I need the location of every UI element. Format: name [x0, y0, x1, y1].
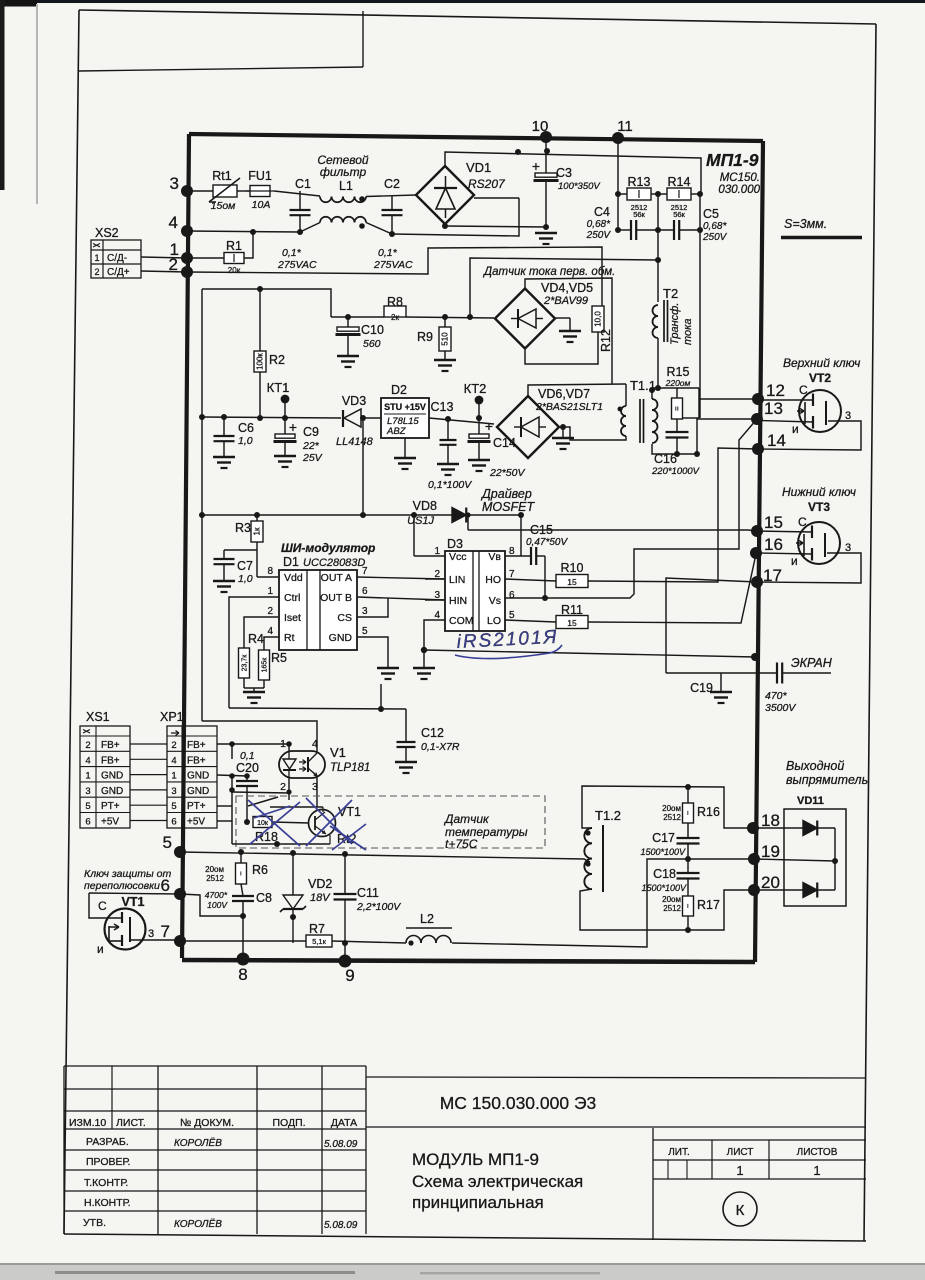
svg-text:2*BAS21SLT1: 2*BAS21SLT1 — [535, 401, 603, 413]
wires XS1-XP1 — [130, 743, 167, 745]
capacitor C6 — [223, 417, 225, 436]
svg-text:−: − — [684, 810, 693, 815]
wire HIN — [425, 599, 445, 601]
svg-text:2512: 2512 — [663, 813, 681, 822]
svg-text:и: и — [791, 554, 798, 568]
svg-text:+5V: +5V — [101, 817, 119, 828]
node 16 — [750, 547, 762, 559]
ground under R4 R5 — [243, 691, 265, 694]
svg-text:R17: R17 — [697, 898, 720, 912]
svg-text:10,0: 10,0 — [594, 311, 603, 327]
node 6 — [174, 888, 186, 900]
svg-text:2512: 2512 — [206, 874, 224, 883]
resistor R2 — [259, 289, 261, 351]
svg-text:4: 4 — [312, 738, 318, 750]
node 7 — [174, 935, 186, 947]
svg-text:КОРОЛЁВ: КОРОЛЁВ — [174, 1137, 222, 1149]
PWM controller D1 — [279, 570, 357, 650]
node 5 — [174, 846, 186, 858]
title block — [64, 1065, 366, 1067]
svg-text:4: 4 — [169, 213, 178, 232]
svg-text:ДАТА: ДАТА — [331, 1117, 357, 1129]
svg-text:0,47*50V: 0,47*50V — [526, 537, 568, 548]
node 15 — [751, 525, 763, 537]
svg-text:1: 1 — [85, 771, 90, 782]
node 14 — [752, 443, 764, 455]
bridge VD4 bottom wire — [525, 332, 598, 364]
svg-text:C9: C9 — [303, 425, 319, 439]
wire bridge- — [445, 226, 546, 227]
svg-text:2: 2 — [94, 267, 99, 277]
wire opto row upper — [229, 708, 406, 709]
svg-text:Vdd: Vdd — [284, 572, 303, 584]
thermal sensor dashed box — [236, 796, 545, 848]
svg-text:Схема электрическая: Схема электрическая — [412, 1172, 583, 1191]
wire R10 to node14 — [588, 448, 758, 582]
left rail vertical — [201, 289, 203, 721]
svg-text:25V: 25V — [302, 452, 323, 464]
wire OUT A — [357, 577, 445, 579]
svg-text:5: 5 — [509, 610, 515, 621]
svg-text:MOSFET: MOSFET — [482, 500, 535, 514]
svg-text:C18: C18 — [653, 867, 676, 881]
page frame left line — [64, 10, 79, 1234]
node 9 — [339, 955, 352, 968]
svg-text:20ом: 20ом — [205, 865, 224, 874]
svg-text:Выходной: Выходной — [786, 759, 844, 773]
wire opto pin2 — [288, 778, 290, 800]
svg-text:6: 6 — [85, 817, 90, 828]
svg-text:13: 13 — [764, 399, 783, 418]
ground under C13 — [437, 463, 459, 466]
wire node3 to Rt1 — [187, 190, 213, 192]
svg-text:5: 5 — [171, 801, 176, 812]
svg-text:C2: C2 — [384, 177, 400, 191]
svg-text:FB+: FB+ — [187, 755, 206, 766]
svg-text:R13: R13 — [628, 175, 651, 189]
svg-text:1: 1 — [171, 771, 176, 782]
svg-text:2,2*100V: 2,2*100V — [356, 901, 401, 913]
node 12 — [752, 393, 764, 405]
regulator D2 — [381, 398, 429, 438]
wire CS — [357, 598, 388, 617]
svg-text:8: 8 — [267, 566, 273, 577]
svg-text:2к: 2к — [391, 313, 399, 322]
node 19 — [748, 853, 760, 865]
wire Vdd — [257, 576, 279, 578]
svg-text:LL4148: LL4148 — [336, 436, 374, 448]
svg-text:№ ДОКУМ.: № ДОКУМ. — [180, 1117, 234, 1129]
wire VD11 join — [834, 828, 836, 890]
svg-text:2512: 2512 — [663, 904, 681, 913]
svg-text:100*350V: 100*350V — [558, 181, 601, 192]
ground at VD6 — [562, 427, 564, 437]
svg-text:C10: C10 — [361, 323, 384, 337]
resistor R5 — [259, 650, 270, 680]
svg-text:GND: GND — [187, 786, 209, 797]
svg-text:R15: R15 — [667, 365, 690, 379]
svg-text:R7: R7 — [309, 922, 325, 936]
wire T1.2 top — [582, 786, 753, 828]
svg-text:Rt: Rt — [284, 632, 295, 644]
svg-text:1: 1 — [267, 586, 273, 597]
wire GND D1 — [357, 637, 388, 667]
wire to Vb — [520, 515, 522, 556]
svg-text:5: 5 — [85, 801, 90, 812]
svg-text:D3: D3 — [447, 537, 463, 551]
svg-text:МОДУЛЬ МП1-9: МОДУЛЬ МП1-9 — [412, 1150, 539, 1169]
svg-text:R1: R1 — [226, 239, 242, 253]
resistor R14 — [667, 188, 691, 200]
svg-text:ПРОВЕР.: ПРОВЕР. — [86, 1156, 130, 1168]
svg-text:C20: C20 — [236, 761, 259, 775]
wire XS2 pin2 — [141, 271, 187, 272]
node 2 — [181, 266, 193, 278]
svg-text:VT1: VT1 — [122, 895, 145, 909]
resistor R7 — [306, 935, 332, 947]
transistor VT1 crossed — [309, 810, 336, 837]
svg-text:2: 2 — [267, 606, 273, 617]
svg-text:ЛИСТ.: ЛИСТ. — [116, 1117, 146, 1129]
svg-text:Датчик: Датчик — [443, 812, 490, 826]
svg-text:3: 3 — [148, 928, 154, 940]
svg-text:0,1*100V: 0,1*100V — [428, 479, 472, 491]
svg-text:R11: R11 — [561, 603, 583, 617]
wire node6 — [89, 893, 180, 894]
wire GND join — [217, 775, 247, 776]
node 17 wire — [666, 578, 757, 673]
svg-text:22*: 22* — [302, 440, 320, 452]
svg-text:переполюсовки: переполюсовки — [84, 880, 160, 892]
title block bottom — [64, 1234, 866, 1241]
svg-text:TLP181: TLP181 — [330, 762, 370, 774]
wire +5V into box — [217, 820, 232, 822]
svg-text:6: 6 — [362, 586, 368, 597]
svg-text:R12: R12 — [599, 329, 613, 352]
svg-text:8: 8 — [238, 965, 247, 984]
svg-text:10А: 10А — [252, 199, 271, 211]
svg-text:5: 5 — [362, 626, 368, 637]
node 4 — [181, 225, 193, 237]
wire to R13 — [618, 193, 627, 195]
svg-text:56к: 56к — [633, 210, 645, 219]
wire T2 bottom — [657, 338, 659, 388]
svg-text:VT2: VT2 — [809, 371, 831, 385]
svg-text:1: 1 — [434, 546, 440, 557]
svg-text:GND: GND — [187, 771, 209, 782]
ground under C9 — [274, 455, 296, 458]
capacitor C3 — [545, 139, 547, 176]
node 17 — [751, 576, 763, 588]
svg-text:выпрямитель: выпрямитель — [786, 773, 868, 787]
svg-text:165к: 165к — [262, 657, 269, 673]
bridge VD4 top wire — [525, 278, 612, 384]
svg-text:1к: 1к — [253, 527, 262, 535]
svg-text:Нижний ключ: Нижний ключ — [782, 485, 856, 499]
svg-text:12: 12 — [766, 381, 785, 400]
opto transistor — [307, 757, 309, 772]
svg-text:510: 510 — [441, 332, 450, 346]
svg-text:ИЗМ.10: ИЗМ.10 — [69, 1117, 106, 1129]
svg-text:C13: C13 — [431, 400, 454, 414]
svg-text:К: К — [736, 1202, 745, 1219]
svg-text:Ctrl: Ctrl — [284, 592, 300, 604]
svg-text:LIN: LIN — [449, 574, 465, 586]
wire node2 long — [187, 247, 602, 306]
svg-text:5.08.09: 5.08.09 — [324, 1220, 358, 1231]
svg-text:7: 7 — [362, 566, 368, 577]
diode VD3 — [342, 410, 344, 427]
bridge VD4 VD5 — [495, 289, 555, 349]
svg-text:C4: C4 — [594, 205, 610, 219]
ground under C6 — [213, 456, 235, 459]
wire C11 to node9 — [344, 943, 346, 961]
stamp K — [723, 1192, 757, 1226]
svg-text:Iset: Iset — [284, 612, 301, 624]
svg-text:КОРОЛЁВ: КОРОЛЁВ — [174, 1218, 222, 1230]
svg-text:20ом: 20ом — [662, 895, 681, 904]
svg-text:ЛИСТ: ЛИСТ — [727, 1147, 754, 1158]
svg-text:HO: HO — [485, 574, 501, 586]
driver supply row — [202, 514, 452, 516]
svg-text:T2: T2 — [663, 286, 678, 301]
scan artifact paper edge shadow — [36, 4, 38, 204]
svg-text:18: 18 — [761, 811, 780, 830]
svg-text:5: 5 — [163, 833, 172, 852]
svg-text:1,0: 1,0 — [238, 435, 253, 447]
wire R13-R14 — [651, 193, 667, 195]
svg-text:4: 4 — [267, 626, 273, 637]
optocoupler V1 — [279, 751, 325, 778]
capacitor C9 electrolytic — [284, 418, 286, 434]
svg-text:RS207: RS207 — [468, 177, 506, 191]
left feedback wire — [202, 289, 331, 317]
svg-text:4: 4 — [171, 755, 176, 766]
svg-text:Ключ защиты от: Ключ защиты от — [84, 868, 171, 880]
wire L2 to node19 — [452, 859, 754, 947]
svg-text:МС150.: МС150. — [720, 172, 760, 184]
svg-text:470*: 470* — [765, 690, 788, 702]
node 12 wire — [698, 388, 700, 418]
scan artifact bottom gray strip — [0, 1263, 925, 1280]
svg-text:iRS2101Я: iRS2101Я — [456, 627, 559, 653]
svg-text:С/Д-: С/Д- — [107, 253, 127, 264]
capacitor C19 — [776, 663, 778, 684]
node 8 — [237, 953, 250, 966]
svg-text:C: C — [798, 515, 807, 529]
svg-text:+5V: +5V — [187, 817, 205, 828]
node 13 — [751, 413, 763, 425]
wire to D3 Vcc — [413, 515, 415, 556]
svg-text:тока: тока — [682, 319, 694, 345]
svg-text:+: + — [289, 419, 297, 435]
diode VD11a — [753, 827, 803, 829]
capacitor C11 — [344, 854, 346, 894]
svg-text:GND: GND — [101, 786, 123, 797]
svg-text:XP1: XP1 — [160, 710, 184, 724]
svg-text:56к: 56к — [673, 210, 685, 219]
svg-text:С/Д+: С/Д+ — [107, 267, 130, 278]
svg-text:R2: R2 — [269, 353, 285, 367]
wire COM to border — [424, 650, 755, 657]
svg-text:C5: C5 — [703, 207, 719, 221]
svg-text:275VAC: 275VAC — [373, 259, 413, 271]
wire node7 row — [180, 940, 306, 942]
svg-text:FB+: FB+ — [187, 740, 206, 751]
svg-text:3: 3 — [845, 410, 851, 422]
svg-text:20: 20 — [761, 873, 780, 892]
VT2 gate loop — [758, 421, 861, 450]
wire opto row lower — [202, 721, 317, 751]
svg-text:C3: C3 — [556, 166, 572, 180]
wire Rt to R5 — [264, 637, 279, 650]
ground under R9 — [434, 359, 456, 362]
svg-text:R16: R16 — [697, 805, 720, 819]
wire R8 row — [331, 316, 384, 318]
svg-text:10к: 10к — [257, 820, 269, 827]
svg-text:15: 15 — [567, 618, 577, 628]
wire opto pin1 — [288, 744, 290, 751]
svg-text:10: 10 — [532, 118, 549, 135]
svg-text:11: 11 — [617, 118, 633, 135]
wire PT+ into box — [217, 805, 232, 807]
svg-text:7: 7 — [509, 569, 515, 580]
svg-text:PT+: PT+ — [187, 801, 206, 812]
resistor R11 — [556, 616, 588, 629]
svg-text:23,7к: 23,7к — [242, 654, 249, 672]
svg-text:Драйвер: Драйвер — [480, 487, 532, 501]
bus C5 right vertical — [699, 194, 701, 418]
wire FU1 to C1/L1 — [274, 191, 320, 196]
svg-text:18V: 18V — [310, 892, 331, 904]
svg-text:3: 3 — [362, 606, 368, 617]
svg-text:C7: C7 — [237, 559, 253, 573]
svg-text:S=3мм.: S=3мм. — [784, 217, 827, 231]
svg-text:100V: 100V — [207, 900, 228, 910]
ground under C3 — [535, 232, 557, 235]
svg-text:7: 7 — [161, 922, 170, 941]
blue cross strokes — [248, 800, 300, 846]
thermal switch — [248, 797, 278, 806]
svg-text:VT1: VT1 — [338, 805, 361, 819]
thermal box bottom wire — [232, 843, 330, 845]
svg-text:R14: R14 — [668, 175, 691, 189]
svg-text:PT+: PT+ — [101, 801, 120, 812]
svg-text:R5: R5 — [271, 651, 287, 665]
wire Rt1-FU1 — [237, 190, 250, 192]
svg-text:Vcc: Vcc — [449, 551, 467, 563]
svg-text:0,68*: 0,68* — [587, 219, 611, 230]
svg-text:9: 9 — [345, 966, 354, 985]
svg-text:VD1: VD1 — [466, 160, 491, 175]
svg-text:22*50V: 22*50V — [489, 467, 525, 479]
svg-text:3: 3 — [170, 174, 179, 193]
svg-text:D1: D1 — [283, 555, 299, 569]
VT3 gate loop — [757, 553, 861, 583]
svg-text:15: 15 — [764, 513, 783, 532]
svg-text:C17: C17 — [652, 831, 675, 845]
svg-text:2: 2 — [280, 781, 286, 793]
svg-text:РАЗРАБ.: РАЗРАБ. — [86, 1136, 129, 1148]
svg-text:0,1-X7R: 0,1-X7R — [421, 741, 460, 753]
svg-text:2*BAV99: 2*BAV99 — [543, 295, 588, 307]
svg-text:GND: GND — [329, 632, 353, 644]
svg-text:VT3: VT3 — [808, 500, 830, 514]
wire C8 to node8 — [242, 916, 244, 959]
svg-text:L1: L1 — [339, 179, 353, 193]
svg-text:3: 3 — [85, 786, 90, 797]
svg-text:C: C — [98, 899, 107, 913]
svg-text:0,1*: 0,1* — [282, 247, 302, 259]
wire 15V to driver row — [362, 418, 364, 515]
capacitor C10 electrolytic — [347, 317, 349, 327]
svg-text:C: C — [799, 383, 808, 397]
svg-text:2: 2 — [171, 740, 176, 751]
wire C15 to Vs — [544, 556, 546, 598]
svg-text:250V: 250V — [586, 230, 612, 241]
svg-text:принципиальная: принципиальная — [412, 1193, 544, 1212]
svg-text:FB+: FB+ — [101, 755, 120, 766]
output top rail — [180, 852, 590, 862]
svg-text:100к: 100к — [256, 353, 265, 370]
svg-text:FB+: FB+ — [101, 740, 120, 751]
svg-text:1,0: 1,0 — [238, 573, 253, 585]
bridge VD6 top wire — [528, 384, 626, 396]
thick schematic border — [189, 134, 763, 141]
svg-text:220ом: 220ом — [665, 378, 691, 388]
svg-text:V1: V1 — [330, 745, 346, 760]
svg-text:L2: L2 — [420, 912, 434, 926]
wire LO to R11 — [505, 620, 556, 622]
svg-text:и: и — [97, 942, 104, 956]
svg-text:фильтр: фильтр — [320, 165, 367, 179]
svg-text:16: 16 — [764, 535, 783, 554]
wire Ctrl — [229, 597, 279, 708]
choke L1 lower coil — [320, 217, 332, 223]
wire Iset to R4 — [244, 617, 279, 648]
node 10 — [540, 131, 552, 143]
svg-text:Vв: Vв — [488, 551, 501, 563]
svg-text:LO: LO — [487, 615, 501, 627]
node 11 — [612, 132, 624, 144]
title block middle and right — [366, 1077, 866, 1078]
svg-text:МП1-9: МП1-9 — [706, 150, 759, 170]
transistor VT3 — [798, 522, 840, 564]
transistor VT2 — [799, 390, 841, 432]
node 20 — [748, 884, 760, 896]
wire VD8 out — [466, 514, 521, 516]
bus mid vertical — [657, 194, 659, 302]
resistor R1 — [224, 253, 244, 264]
svg-text:VD11: VD11 — [797, 795, 824, 807]
wire R14 right — [691, 193, 700, 195]
svg-text:VD8: VD8 — [413, 499, 437, 513]
wire bridge+ to C3 — [445, 152, 701, 194]
svg-text:VD6,VD7: VD6,VD7 — [538, 387, 590, 401]
svg-text:C1: C1 — [295, 177, 311, 191]
svg-text:GND: GND — [101, 771, 123, 782]
svg-text:1500*100V: 1500*100V — [640, 847, 686, 857]
svg-text:VD3: VD3 — [342, 394, 366, 408]
svg-text:R3: R3 — [235, 521, 251, 535]
svg-text:+: + — [485, 418, 493, 434]
wire HO to R10 — [505, 579, 556, 581]
svg-text:C6: C6 — [238, 421, 254, 435]
scan artifact top-left block — [0, 0, 37, 7]
wire L1 bottom — [300, 223, 320, 233]
thermistor Rt1 — [213, 185, 237, 197]
svg-text:КТ1: КТ1 — [267, 380, 290, 395]
